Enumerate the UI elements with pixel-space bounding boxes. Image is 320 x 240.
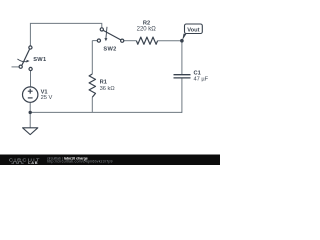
footer banner — [0, 155, 220, 166]
ground — [23, 128, 38, 135]
svg-text:Vout: Vout — [187, 27, 199, 33]
wire V1 to bottom rail — [29, 102, 31, 112]
svg-text:47 µF: 47 µF — [194, 76, 209, 82]
wire SW1 bottom to V1 — [30, 71, 32, 87]
resistor R1 — [89, 74, 95, 97]
wire R1 to rail — [91, 97, 93, 112]
wire bottom rail — [30, 111, 182, 113]
node Vout flag box — [185, 24, 203, 34]
svg-text:SW2: SW2 — [103, 47, 116, 53]
voltage source V1 — [23, 87, 38, 102]
svg-text:LAB: LAB — [28, 161, 38, 165]
capacitor C1 — [174, 75, 191, 78]
wire SW2 left throw stub — [92, 40, 97, 42]
svg-text:SW1: SW1 — [33, 57, 46, 63]
resistor R2 — [136, 37, 157, 44]
svg-text:220 kΩ: 220 kΩ — [137, 26, 157, 32]
switch SW1 — [17, 46, 32, 71]
logo wave — [11, 162, 23, 164]
wire SW1 NC stub — [12, 66, 20, 68]
svg-text:25 V: 25 V — [41, 95, 53, 101]
wire node down to C1 — [181, 41, 183, 74]
junction dot V1/rail/ground — [29, 111, 32, 114]
wire C1 to rail corner — [180, 78, 183, 112]
node Vout flag tail — [182, 34, 186, 41]
svg-text:http://circuitlab.com/c4qm6bvk: http://circuitlab.com/c4qm6bvkz3r7p9 — [47, 160, 113, 164]
wire R2 to node — [158, 40, 182, 42]
wire stub down to R1 — [91, 41, 93, 74]
wire junction to ground — [29, 112, 31, 127]
node Vout junction dot — [180, 39, 184, 43]
svg-text:R1: R1 — [100, 80, 107, 86]
svg-text:36 kΩ: 36 kΩ — [100, 86, 115, 92]
wire SW2 to R2 — [124, 40, 137, 42]
wire top: SW1 common to SW2 common — [30, 23, 101, 45]
switch SW2 — [97, 27, 123, 43]
